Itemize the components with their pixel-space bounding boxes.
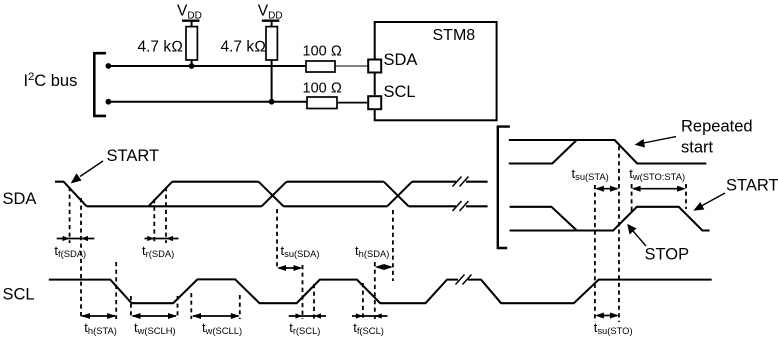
dashed tw(SCLL) left (190, 293, 192, 319)
wire SDA low 3 with break (409, 205, 488, 207)
svg-text:tsu(SDA): tsu(SDA) (281, 243, 320, 259)
arrow tw(SCLH) (133, 315, 177, 317)
svg-text:SCL: SCL (384, 83, 416, 101)
STM8 box (375, 22, 497, 120)
dashed tsu(STO) left (594, 185, 596, 322)
svg-text:VDD: VDD (177, 3, 202, 22)
break marks SDA low (453, 201, 469, 211)
dashed tf(SCL) left (362, 283, 364, 319)
wire SCL main (49, 279, 712, 303)
wire SDA top 1 (172, 181, 258, 183)
wire SDA bus line (107, 65, 307, 67)
svg-text:SDA: SDA (3, 190, 37, 208)
wire inset SDA high-fall (510, 207, 577, 231)
dashed tw(STO:STA) right (685, 184, 687, 209)
wire SDA low line (87, 205, 262, 207)
callout arrow Repeated start (635, 137, 677, 148)
node SCL bus dot (106, 99, 112, 105)
pin SCL square (368, 96, 381, 109)
svg-text:SDA: SDA (384, 51, 418, 69)
inset bracket (498, 127, 510, 248)
svg-text:START: START (107, 147, 160, 165)
dashed tr(SDA) right (165, 187, 167, 243)
svg-text:START: START (726, 177, 778, 195)
wire SDA rise 1 (149, 182, 173, 207)
svg-text:tsu(STO): tsu(STO) (594, 320, 633, 336)
wire SCL bus line (107, 101, 308, 103)
node R2/SCL junction (269, 99, 275, 105)
dashed tsu(SDA) right / tr(SCL) up (302, 265, 304, 319)
resistor R1 4.7k body (186, 27, 197, 60)
VDD rail 1 bar (182, 20, 200, 22)
wire VDD2 to R2 (271, 21, 273, 27)
wire R2 to SCL line (271, 60, 273, 102)
wire inset SDA low line (510, 207, 710, 231)
dashed tw(SCLH) left (130, 296, 132, 319)
svg-text:tw(SCLL): tw(SCLL) (202, 320, 242, 336)
svg-text:tr(SCL): tr(SCL) (289, 320, 320, 336)
svg-text:Repeated: Repeated (681, 118, 753, 136)
VDD rail 2 bar (262, 20, 280, 22)
dashed tsu(SDA) left (276, 209, 278, 268)
dashed tr(SDA) left (153, 199, 155, 243)
dashed tw(STO:STA) left (631, 184, 633, 211)
svg-text:STM8: STM8 (433, 27, 476, 44)
dashed tf(SDA) left (69, 187, 71, 243)
svg-text:4.7 kΩ: 4.7 kΩ (221, 39, 267, 56)
wire SDA low 2 (284, 205, 388, 207)
arrow tsu(STO) (597, 315, 617, 317)
svg-text:4.7 kΩ: 4.7 kΩ (138, 39, 184, 56)
wire SDA crossover 2 rise (387, 182, 412, 207)
arrow tf(SDA) (57, 238, 95, 240)
node SDA bus dot (106, 63, 112, 69)
dashed th(SDA) left / tf(SCL) up (374, 262, 376, 319)
arrow tsu(SDA) (279, 267, 300, 269)
wire SDA top 3 with break (412, 181, 488, 183)
wire inset SCL low-rise (509, 140, 577, 164)
arrow tw(SCLL) (193, 315, 239, 317)
svg-text:tf(SCL): tf(SCL) (353, 320, 384, 336)
wire inset SCL high line (509, 140, 707, 164)
svg-text:start: start (681, 139, 714, 157)
svg-text:tr(SDA): tr(SDA) (142, 243, 174, 259)
dashed tsu(STO) right (618, 146, 620, 322)
arrow tf(SCL) (352, 315, 388, 317)
callout arrow STOP (627, 224, 646, 246)
wire SDA top 2 (287, 181, 384, 183)
svg-text:tsu(STA): tsu(STA) (572, 166, 609, 182)
wire VDD1 to R1 (191, 21, 193, 27)
callout arrow START left (71, 161, 103, 184)
wire R3 to SDA pin (335, 65, 369, 67)
svg-text:100 Ω: 100 Ω (303, 43, 342, 59)
pin SDA square (368, 60, 381, 73)
arrow th(STA) (82, 315, 115, 317)
svg-text:VDD: VDD (258, 3, 283, 22)
svg-text:STOP: STOP (645, 246, 690, 264)
wire R1 to SDA line (191, 60, 193, 66)
resistor R2 4.7k body (266, 27, 277, 60)
callout arrow START right (693, 193, 725, 211)
dashed th(STA) right (115, 262, 117, 319)
svg-text:th(SDA): th(SDA) (355, 243, 389, 259)
arrow th(SDA) (377, 266, 391, 268)
dashed tr(SCL) right (313, 284, 315, 319)
wire SDA crossover 1 rise (262, 182, 287, 207)
svg-text:I2C bus: I2C bus (24, 71, 78, 90)
arrow tsu(STA) (597, 188, 617, 190)
wire SDA crossover 1 fall (259, 182, 284, 207)
node R1/SDA junction (189, 63, 195, 69)
svg-text:SCL: SCL (3, 286, 35, 304)
arrow tr(SDA) (145, 238, 179, 240)
svg-text:tw(SCLH): tw(SCLH) (134, 320, 176, 336)
I2C bus bracket (94, 53, 106, 116)
dashed tw(SCLH) right (177, 296, 179, 319)
dashed tw(SCLL) right (239, 295, 241, 319)
arrow tr(SCL) (289, 315, 326, 317)
svg-text:100 Ω: 100 Ω (303, 81, 342, 97)
break marks SDA top (453, 177, 469, 187)
dashed tf(SDA) right / th(STA) left (80, 198, 82, 319)
resistor R3 100ohm body (306, 61, 335, 72)
arrow tw(STO:STA) (634, 188, 684, 190)
wire R4 to SCL pin (337, 102, 369, 104)
svg-text:tw(STO:STA): tw(STO:STA) (629, 166, 685, 182)
wire SDA start high + START fall (55, 182, 87, 207)
break marks SCL (456, 275, 472, 285)
resistor R4 100ohm body (307, 97, 337, 109)
dashed th(SDA) right (392, 210, 394, 281)
wire SDA crossover 2 fall (384, 182, 409, 207)
svg-text:th(STA): th(STA) (84, 320, 117, 336)
